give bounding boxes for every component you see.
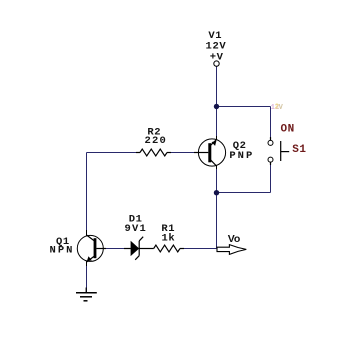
svg-text:NPN: NPN <box>50 245 75 257</box>
svg-text:9V1: 9V1 <box>125 223 148 235</box>
svg-text:+V: +V <box>210 51 224 63</box>
svg-text:ON: ON <box>280 123 294 135</box>
svg-text:PNP: PNP <box>229 150 254 162</box>
svg-text:1k: 1k <box>161 233 175 245</box>
svg-text:S1: S1 <box>292 144 306 156</box>
svg-text:220: 220 <box>144 135 167 147</box>
svg-text:Vo: Vo <box>228 233 241 245</box>
